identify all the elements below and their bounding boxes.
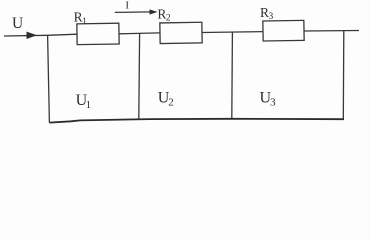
svg-text:R3: R3 <box>260 5 274 22</box>
wire: branch between loops U2 and U3 (vertical) <box>231 32 234 119</box>
wire: input lead from left edge to resistor R1 <box>4 34 77 36</box>
svg-text:U3: U3 <box>260 89 277 108</box>
svg-text:U: U <box>12 15 23 32</box>
svg-text:U1: U1 <box>76 92 92 111</box>
svg-text:I: I <box>125 0 129 11</box>
current arrow I <box>115 11 151 14</box>
wire: branch between loops U1 and U2 (vertical) <box>138 33 141 119</box>
wire: node between R2 and R3 <box>202 31 263 34</box>
wire: node between R1 and R2 <box>119 32 160 35</box>
wire: bottom return rail <box>49 119 344 123</box>
input arrowhead (U direction) <box>27 32 38 39</box>
svg-text:R2: R2 <box>157 7 171 24</box>
wire: right branch of loop U3 (vertical) <box>342 31 345 120</box>
svg-text:R1: R1 <box>74 10 88 27</box>
svg-text:U2: U2 <box>158 89 174 108</box>
wire: output lead right of R3 <box>304 30 359 33</box>
resistor R2 <box>160 22 202 43</box>
wire: left branch of loop U1 (vertical) <box>48 35 50 122</box>
resistor R1 <box>77 23 119 44</box>
resistor R3 <box>263 20 304 41</box>
